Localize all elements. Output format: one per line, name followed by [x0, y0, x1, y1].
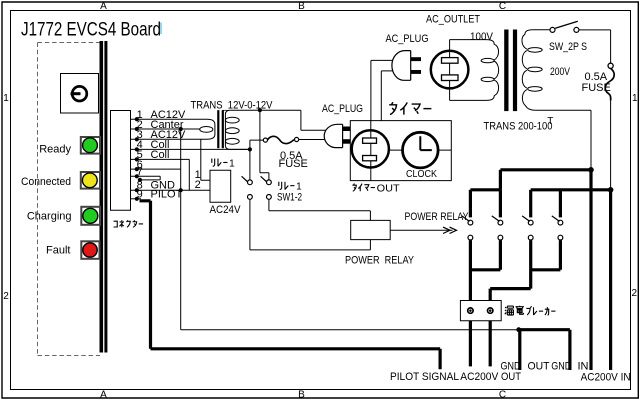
pin 3 (AC12V) — [135, 129, 186, 141]
svg-text:POWER RELAY: POWER RELAY — [405, 211, 470, 223]
svg-text:OUT: OUT — [377, 182, 401, 194]
svg-text:Connected: Connected — [21, 176, 71, 188]
pin 9 (PILOT) — [135, 189, 183, 201]
svg-text:AC200V IN: AC200V IN — [581, 371, 631, 383]
LED Fault (red) — [46, 241, 99, 258]
svg-text:FUSE: FUSE — [279, 158, 308, 170]
relay contact K1a — [462, 216, 473, 240]
svg-text:1: 1 — [3, 93, 9, 104]
wire relay pin1 feed — [201, 139, 210, 180]
pin 6 — [135, 159, 143, 171]
wire pin8 GND to relay pin2 — [131, 189, 210, 191]
wire contact4 feed — [559, 190, 562, 218]
svg-text:POWER RELAY: POWER RELAY — [345, 255, 415, 267]
dashed enclosure (EV connector assembly) — [38, 43, 101, 356]
wire bus2 (fused to contacts 3-4) — [531, 187, 614, 193]
wire 200V winding bottom lead — [535, 109, 591, 111]
indicator symbol box — [61, 74, 99, 114]
wire AC200V-in line A — [589, 168, 592, 370]
wire SW2 feed — [260, 110, 269, 179]
wire pin2 Canter to winding center — [131, 128, 201, 130]
svg-text:TRANS 200-100: TRANS 200-100 — [484, 120, 553, 132]
pin 4 (Coll) — [135, 139, 170, 151]
svg-text:Charging: Charging — [27, 210, 72, 222]
label AC200V IN — [581, 371, 631, 383]
transformer T1 label — [191, 100, 274, 112]
transformer T2 200V winding — [522, 30, 542, 111]
LED Connected (yellow) — [21, 172, 100, 189]
wire AC200V-out A — [469, 321, 472, 367]
wire pin3 AC12V to 12V winding bottom — [131, 138, 208, 140]
wire pin7 jog — [131, 176, 161, 182]
svg-text:SW_2P S: SW_2P S — [549, 41, 587, 53]
relay contact K1c — [522, 216, 533, 240]
wire fuse F1 leg — [250, 140, 263, 149]
svg-text:OUT: OUT — [501, 371, 521, 383]
svg-text:AC200V: AC200V — [460, 371, 499, 383]
switch contact SW1-2 — [261, 176, 272, 199]
svg-text:2: 2 — [3, 291, 9, 302]
wire SW2 to relay coil — [269, 199, 371, 220]
wire AC200V-out B — [489, 321, 492, 367]
LED Ready (green) — [39, 137, 100, 155]
label fuse F2 — [582, 71, 611, 94]
wire SW1 to relay coil — [250, 199, 371, 250]
arrow relay to contacts — [390, 227, 456, 233]
transformer T2 100V winding — [481, 40, 499, 101]
wire contacts1-2 join — [470, 240, 500, 300]
svg-text:Ready: Ready — [39, 143, 71, 155]
wire bus1 (200V to contacts 1-2) — [500, 167, 593, 173]
svg-text:A: A — [100, 1, 107, 12]
svg-text:1: 1 — [229, 158, 235, 169]
svg-text:AC_PLUG: AC_PLUG — [322, 103, 363, 115]
wire SW_2P to fuse F2 — [579, 30, 611, 63]
fuse F2 0.5A — [605, 63, 614, 100]
wire junction 12V bottom — [248, 147, 252, 151]
wire contact2 feed — [499, 170, 502, 190]
switch SW_2P S — [550, 21, 579, 32]
pin 7 — [135, 166, 143, 178]
wire AC200V-in line B — [609, 190, 612, 370]
label POWER RELAY (top) — [405, 211, 470, 223]
switch contact リレー1 — [242, 176, 253, 199]
label PILOT SIGNAL — [390, 371, 459, 383]
svg-text:Fault: Fault — [46, 244, 70, 256]
wire inside timer — [389, 149, 452, 151]
label SW_2P S — [549, 41, 587, 53]
svg-text:GND: GND — [551, 361, 571, 373]
title text — [21, 20, 161, 41]
power relay coil box — [351, 220, 391, 239]
wire contact1 branch — [470, 190, 500, 218]
relay リレー1 pin numbers — [195, 169, 201, 191]
svg-text:PILOT SIGNAL: PILOT SIGNAL — [390, 371, 459, 383]
svg-text:C: C — [499, 1, 506, 12]
wire SW1 feed — [249, 149, 251, 179]
transformer T2 label — [484, 116, 554, 132]
label リレー1 (relay) — [212, 158, 235, 169]
label タイマー — [389, 102, 431, 114]
svg-text:CLOCK: CLOCK — [406, 168, 437, 180]
wire outlet bottom — [450, 99, 487, 101]
label fuse F1 — [279, 150, 308, 170]
svg-text:AC24V: AC24V — [210, 204, 242, 216]
transformer T1 core — [217, 110, 224, 148]
wire pin6 — [131, 168, 181, 170]
svg-text:2: 2 — [632, 288, 638, 299]
transformer T1 secondary winding — [225, 110, 239, 149]
svg-text:A: A — [100, 390, 107, 400]
label CLOCK — [406, 168, 437, 180]
pin 8 (GND) — [135, 180, 175, 193]
svg-text:0.5A: 0.5A — [585, 71, 608, 83]
wire pin1 AC12V to 12V winding top — [131, 118, 208, 120]
svg-text:B: B — [298, 1, 305, 12]
wire GND out/in terminals — [520, 330, 570, 370]
label 200V — [550, 66, 571, 78]
wire GND run — [181, 327, 521, 332]
wire AC_OUTLET feed — [449, 40, 451, 101]
wire T2 secondary down — [590, 110, 592, 168]
label AC200V OUT — [460, 371, 521, 383]
wire fuse F2 down — [610, 101, 612, 189]
breaker 漏電ブレーカー box — [460, 301, 501, 321]
svg-text:2: 2 — [195, 179, 201, 191]
transformer T1 primary winding — [200, 119, 215, 139]
pin 1 (AC12V) — [135, 109, 186, 121]
relay リレー1 box — [210, 170, 231, 202]
wire outlet top 100V — [450, 39, 487, 41]
svg-text:B: B — [298, 390, 305, 400]
pin 2 (Canter) — [135, 119, 184, 131]
wire contact3 feed — [529, 190, 532, 218]
outlet AC_OUTLET symbol — [431, 51, 469, 89]
wire pin9 PILOT stub — [131, 198, 142, 200]
outlet タイマーOUT symbol — [352, 130, 389, 167]
wire 12V top to plug — [258, 108, 326, 130]
svg-text:100V: 100V — [470, 31, 494, 43]
relay contact K1b — [492, 216, 503, 240]
svg-text:FUSE: FUSE — [582, 82, 611, 94]
timer box — [350, 121, 451, 181]
label 100V — [470, 31, 494, 43]
svg-text:200V: 200V — [550, 66, 571, 78]
svg-text:C: C — [499, 390, 506, 400]
label AC24V — [210, 204, 242, 216]
wire contacts3-4 join — [490, 240, 560, 300]
text cursor — [160, 23, 162, 35]
svg-text:1: 1 — [632, 93, 638, 104]
svg-text:SW1-2: SW1-2 — [277, 191, 302, 203]
fuse F1 0.5A — [263, 136, 324, 143]
wire pin4 Coll to fuse junction — [131, 148, 249, 150]
wire plug P1 lead A — [371, 60, 393, 120]
label コネクター — [114, 220, 144, 227]
svg-text:T: T — [547, 116, 553, 127]
label POWER RELAY (bottom) — [345, 255, 415, 267]
wire 200V winding top lead — [532, 29, 550, 31]
pin 5 (Coll) — [135, 149, 170, 161]
plug P2 body — [324, 124, 350, 147]
svg-text:AC_PLUG: AC_PLUG — [386, 33, 429, 45]
connector bar (J1772 coupler) — [100, 41, 108, 353]
transformer T2 core — [504, 30, 517, 112]
wire T1 secondary top lead — [230, 109, 260, 111]
label AC_OUTLET — [426, 13, 480, 25]
label 漏電ブレーカー — [505, 306, 556, 315]
svg-text:OUT: OUT — [528, 361, 550, 373]
label SW1-2 — [277, 191, 302, 203]
connector pin box (コネクター) — [111, 111, 131, 211]
svg-text:AC_OUTLET: AC_OUTLET — [426, 13, 480, 25]
label GND OUT GND IN — [501, 361, 589, 373]
wire timer outlet feed — [370, 121, 372, 181]
clock symbol — [403, 132, 439, 168]
plug P1 body — [392, 51, 421, 81]
wire pin5 Coll to relay pin2 — [131, 159, 190, 190]
wire Canter-GND vertical — [179, 127, 183, 330]
wire plug P1 lead B — [381, 71, 392, 121]
relay contact K1d — [552, 216, 563, 240]
LED Charging (green) — [27, 207, 100, 225]
wire PILOT signal run — [140, 201, 441, 369]
label AC_PLUG (timer) — [322, 103, 363, 115]
label AC_PLUG (top) — [386, 33, 429, 45]
svg-text:J1772 EVCS4 Board: J1772 EVCS4 Board — [21, 20, 161, 41]
wire T1 secondary bottom lead — [231, 148, 249, 150]
label タイマーOUT — [352, 182, 400, 194]
label リレー1 (switch) — [279, 182, 302, 193]
